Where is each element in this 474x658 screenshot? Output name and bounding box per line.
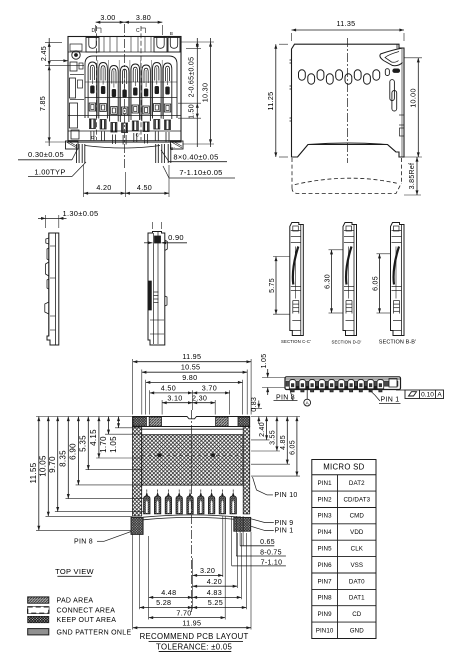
right profile dark latch block bbox=[155, 236, 161, 243]
dimension 6.05 (pcb) bbox=[289, 417, 298, 477]
side view bump 1 bbox=[289, 380, 296, 389]
table row line 5 bbox=[312, 556, 376, 558]
side view bump 2 bbox=[299, 380, 306, 389]
right solder legs bbox=[155, 144, 157, 163]
label TOP VIEW bbox=[55, 567, 94, 576]
dimension 11.95 (pcb top) bbox=[133, 352, 251, 363]
dimension 8-0.75 bbox=[236, 550, 286, 557]
svg-text:SECTION C-C': SECTION C-C' bbox=[281, 339, 311, 344]
svg-text:11.95: 11.95 bbox=[182, 352, 201, 361]
dimension 5.35 bbox=[79, 417, 90, 470]
table row line 9 bbox=[312, 621, 376, 623]
dark oval feature bbox=[393, 69, 400, 72]
keep out right column bbox=[243, 427, 250, 514]
dimension 8.35 bbox=[59, 417, 70, 499]
table row line 7 bbox=[312, 588, 376, 590]
svg-text:3.85Ref: 3.85Ref bbox=[409, 163, 416, 190]
svg-text:0.90: 0.90 bbox=[168, 233, 184, 242]
svg-text:CONNECT AREA: CONNECT AREA bbox=[57, 607, 116, 614]
table row line 8 bbox=[312, 605, 376, 607]
svg-text:8.35: 8.35 bbox=[59, 450, 68, 467]
svg-text:6.30: 6.30 bbox=[324, 274, 331, 289]
dimension 10.30 (right) bbox=[183, 38, 214, 147]
right edge details bbox=[401, 48, 403, 157]
legend connect area bbox=[28, 607, 116, 614]
small oval feature bbox=[385, 69, 389, 76]
svg-text:2.45: 2.45 bbox=[39, 46, 48, 61]
dimension 6.90 bbox=[69, 417, 80, 485]
gnd pad top-right bbox=[238, 417, 250, 426]
label TOLERANCE ±0.05 bbox=[156, 642, 232, 651]
svg-text:4.83: 4.83 bbox=[207, 588, 222, 597]
pin1 marker dots bbox=[158, 454, 162, 458]
svg-text:CD/DAT3: CD/DAT3 bbox=[343, 496, 370, 503]
left corner foot bbox=[66, 141, 79, 149]
contact pin 3 bbox=[110, 66, 119, 145]
view: left side profile bbox=[45, 233, 59, 345]
label PIN 1 (pcb) bbox=[251, 526, 294, 534]
svg-text:DAT1: DAT1 bbox=[349, 595, 365, 602]
section foot lines bbox=[292, 320, 301, 322]
svg-text:1.00TYP: 1.00TYP bbox=[34, 168, 65, 177]
pad area top-left bbox=[149, 417, 161, 426]
pad area top-right bbox=[216, 417, 229, 426]
pcb pad pin 9 bbox=[230, 496, 236, 514]
side view right end window bbox=[389, 379, 397, 388]
svg-text:DAT2: DAT2 bbox=[349, 480, 365, 487]
svg-text:C: C bbox=[136, 28, 140, 34]
svg-text:1.30±0.05: 1.30±0.05 bbox=[62, 209, 98, 218]
dimension 5.28 / 5.25 bbox=[140, 598, 247, 609]
svg-text:PIN5: PIN5 bbox=[318, 546, 333, 553]
svg-text:PAD AREA: PAD AREA bbox=[57, 597, 94, 604]
view: front side view of connector bbox=[285, 377, 401, 392]
svg-text:10.05: 10.05 bbox=[39, 455, 48, 477]
section line D-D bbox=[96, 26, 98, 140]
svg-text:PIN 1: PIN 1 bbox=[274, 528, 293, 535]
svg-text:D: D bbox=[92, 28, 96, 34]
svg-text:5.35: 5.35 bbox=[79, 435, 88, 452]
svg-text:2.30: 2.30 bbox=[192, 394, 207, 403]
pcb pad pin 7 bbox=[208, 496, 214, 514]
datum A symbol bbox=[304, 390, 311, 407]
contact pin 6 bbox=[142, 65, 151, 144]
dimension 0.90 bbox=[144, 222, 187, 244]
pcb right extension lines bbox=[251, 417, 300, 477]
leader arrow at left edge bbox=[50, 60, 68, 62]
pcb pad pin 6 bbox=[198, 496, 204, 514]
svg-text:GND: GND bbox=[350, 627, 364, 634]
svg-text:3.70: 3.70 bbox=[202, 383, 217, 392]
dimension 1.05 (side view) bbox=[261, 354, 285, 395]
table row line 2 bbox=[312, 507, 376, 509]
svg-text:D': D' bbox=[91, 135, 96, 140]
svg-text:5.25: 5.25 bbox=[208, 598, 223, 607]
svg-text:0.83: 0.83 bbox=[251, 397, 258, 412]
mount tab right with slot bbox=[168, 38, 180, 53]
svg-text:RECOMMEND PCB LAYOUT: RECOMMEND PCB LAYOUT bbox=[140, 632, 249, 641]
right corner foot bbox=[171, 141, 184, 149]
dimension 9.80 bbox=[146, 373, 243, 384]
gnd foot bottom-right bbox=[234, 517, 251, 531]
gnd pad top-left bbox=[133, 417, 146, 426]
keep out left column bbox=[133, 427, 142, 517]
svg-text:3.20: 3.20 bbox=[200, 566, 215, 575]
svg-text:PIN3: PIN3 bbox=[318, 513, 333, 520]
dimension 1.05 bbox=[109, 417, 120, 453]
card edge arcs under pads bbox=[143, 515, 240, 517]
svg-text:4.48: 4.48 bbox=[161, 588, 176, 597]
svg-text:0.30±0.05: 0.30±0.05 bbox=[28, 150, 64, 159]
dimension 10.55 bbox=[142, 363, 247, 374]
svg-text:KEEP OUT AREA: KEEP OUT AREA bbox=[57, 617, 117, 624]
svg-text:3.80: 3.80 bbox=[136, 13, 151, 22]
svg-text:VDD: VDD bbox=[350, 529, 364, 536]
dimension 6.30 bbox=[324, 250, 343, 313]
dimension 2.45 / 7.85 (left) bbox=[38, 38, 84, 146]
svg-text:1.70: 1.70 bbox=[99, 436, 108, 453]
dimension 0.65 bbox=[240, 539, 275, 546]
legend gnd pattern bbox=[28, 629, 132, 637]
dimension 3.10 / 2.30 bbox=[162, 394, 215, 405]
side view bump 6 bbox=[338, 380, 345, 389]
svg-text:PIN10: PIN10 bbox=[316, 627, 334, 634]
right profile dark bar bbox=[149, 281, 152, 310]
connect area dashed line bbox=[142, 454, 244, 456]
side view bump 3 bbox=[309, 380, 316, 389]
svg-text:TOLERANCE: ±0.05: TOLERANCE: ±0.05 bbox=[156, 642, 232, 651]
side view bump 7 bbox=[348, 380, 355, 389]
label PIN 9 bbox=[251, 519, 294, 527]
shell outline bbox=[292, 44, 405, 157]
section ladder ribs bbox=[346, 300, 352, 302]
label PIN 8 (side view) bbox=[274, 390, 298, 401]
svg-text:7.70: 7.70 bbox=[176, 608, 191, 617]
section contact spring bbox=[346, 247, 351, 285]
svg-text:11.35: 11.35 bbox=[337, 19, 356, 28]
view: right side profile bbox=[148, 232, 167, 346]
svg-text:SECTION D-D': SECTION D-D' bbox=[332, 339, 362, 344]
svg-text:10.55: 10.55 bbox=[181, 363, 201, 372]
svg-text:11.95: 11.95 bbox=[182, 618, 201, 627]
svg-text:0.10: 0.10 bbox=[421, 392, 434, 399]
svg-text:9.70: 9.70 bbox=[48, 456, 57, 473]
svg-text:4.50: 4.50 bbox=[137, 183, 152, 192]
inner strip line bbox=[142, 428, 244, 430]
side view bottom blobs bbox=[296, 386, 299, 389]
contact pin 1 bbox=[88, 62, 97, 141]
svg-text:8-0.75: 8-0.75 bbox=[260, 550, 282, 557]
svg-text:PIN8: PIN8 bbox=[318, 595, 333, 602]
louver holes row bbox=[299, 70, 306, 80]
dimension 4.20 (pcb) bbox=[193, 577, 238, 588]
card outline dashed left bbox=[291, 158, 293, 188]
legend pad area bbox=[28, 597, 94, 604]
mount tab mid with slot bbox=[154, 38, 167, 53]
svg-text:PIN1: PIN1 bbox=[318, 480, 333, 487]
shell bottom contour bbox=[292, 143, 405, 157]
dimension 11.25 (left) bbox=[266, 44, 288, 157]
dimension 1.70 bbox=[99, 417, 110, 453]
left profile contact bumps bbox=[46, 238, 49, 244]
svg-text:11.25: 11.25 bbox=[266, 92, 275, 111]
svg-text:10.00: 10.00 bbox=[408, 88, 417, 108]
dimension 11.35 (top) bbox=[292, 19, 405, 41]
svg-text:2-0.65±0.05: 2-0.65±0.05 bbox=[189, 57, 196, 98]
contact pin 8 bbox=[163, 63, 172, 142]
dimension 1.30±0.05 bbox=[38, 209, 104, 228]
dimension 7-1.10±0.05 (leader) bbox=[163, 166, 235, 178]
svg-text:2.40: 2.40 bbox=[259, 422, 266, 437]
svg-text:SECTION B-B': SECTION B-B' bbox=[379, 339, 416, 345]
dimension 0.83 bbox=[251, 397, 262, 424]
pcb top extension lines bbox=[133, 359, 251, 415]
dimension 7-1.10 bbox=[232, 559, 286, 566]
pcb bottom extension lines bbox=[133, 516, 251, 630]
side view bump 5 bbox=[328, 380, 335, 389]
card detect latch bbox=[380, 48, 403, 66]
pcb pad pin 8 bbox=[219, 496, 225, 514]
svg-text:PIN 8: PIN 8 bbox=[74, 539, 93, 546]
dimension 4.50 / 3.70 bbox=[150, 383, 230, 394]
right profile ladder ribs bbox=[154, 291, 159, 293]
dimension 3.00 / 3.80 (top) bbox=[96, 13, 163, 35]
dimension 0.30±0.05 (leader) bbox=[18, 148, 78, 160]
left margin small parts bbox=[70, 44, 82, 51]
svg-text:4.50: 4.50 bbox=[161, 383, 176, 392]
svg-text:TOP VIEW: TOP VIEW bbox=[55, 567, 94, 576]
svg-text:PIN9: PIN9 bbox=[318, 611, 333, 618]
body outline bbox=[68, 37, 181, 143]
pcb center line bbox=[191, 410, 193, 612]
section ladder ribs bbox=[394, 300, 400, 302]
pcb pad pin 1 bbox=[144, 496, 150, 514]
table: MICRO SD pin assignment bbox=[312, 460, 376, 639]
flatness feature control frame 0.10 A bbox=[396, 390, 444, 399]
table column divider bbox=[337, 475, 339, 639]
write protect slot bbox=[390, 80, 395, 101]
svg-text:A: A bbox=[305, 400, 309, 406]
card front edge dashed arc bbox=[295, 178, 397, 184]
dimension 3.85Ref (right) bbox=[404, 157, 421, 195]
svg-text:4.20: 4.20 bbox=[96, 183, 111, 192]
svg-text:CMD: CMD bbox=[350, 513, 365, 520]
svg-text:0.65: 0.65 bbox=[260, 539, 275, 546]
svg-text:7-1.10: 7-1.10 bbox=[261, 559, 283, 566]
side view bump 4 bbox=[319, 380, 326, 389]
view: connector assembly top view (upper-left) bbox=[50, 24, 183, 170]
dimension 4.15 bbox=[89, 417, 100, 459]
dimension 11.55 bbox=[29, 417, 40, 531]
svg-text:7-1.10±0.05: 7-1.10±0.05 bbox=[179, 168, 222, 177]
top band line bbox=[68, 51, 181, 53]
left margin detent circle bbox=[72, 51, 80, 59]
pcb pad pin 5 bbox=[187, 496, 193, 514]
label RECOMMEND PCB LAYOUT bbox=[140, 632, 249, 641]
svg-text:1.05: 1.05 bbox=[109, 436, 118, 453]
dimension 3.20 bbox=[193, 566, 223, 577]
view: recommended PCB layout bbox=[131, 410, 251, 612]
top band segment lines bbox=[103, 37, 105, 53]
view: section D-D (middle-right 2) bbox=[343, 223, 357, 336]
left solder legs bbox=[76, 144, 78, 163]
housing walls between contacts bbox=[97, 60, 99, 116]
dimension 6.05 bbox=[372, 254, 391, 313]
dimension 2.40 bbox=[259, 417, 268, 440]
mount tab left with slot bbox=[86, 38, 99, 53]
svg-text:CLK: CLK bbox=[351, 546, 364, 553]
dimension 2-0.65 / 1.50 (right) bbox=[178, 38, 214, 147]
table row line 3 bbox=[312, 523, 376, 525]
svg-text:4.20: 4.20 bbox=[207, 577, 222, 586]
svg-text:1.05: 1.05 bbox=[261, 354, 268, 369]
side view bump 9 bbox=[367, 380, 374, 389]
svg-text:10.30: 10.30 bbox=[200, 83, 209, 103]
svg-text:DAT0: DAT0 bbox=[349, 578, 365, 585]
svg-text:B: B bbox=[170, 31, 173, 36]
svg-text:PIN 1: PIN 1 bbox=[380, 397, 399, 404]
section ladder ribs bbox=[293, 300, 299, 302]
svg-text:6.05: 6.05 bbox=[289, 440, 296, 455]
view: section B-B (middle-right 3) bbox=[391, 223, 405, 336]
pcb top strip outline bbox=[133, 417, 250, 427]
svg-text:PIN 10: PIN 10 bbox=[274, 492, 297, 499]
contact pin 2 bbox=[99, 63, 108, 142]
svg-text:VSS: VSS bbox=[350, 562, 363, 569]
svg-text:A: A bbox=[437, 392, 442, 399]
label PIN 1 (side view) bbox=[369, 390, 401, 404]
svg-text:5.75: 5.75 bbox=[269, 278, 276, 293]
svg-text:GND PATTERN ONLE: GND PATTERN ONLE bbox=[57, 629, 132, 636]
contact pin 5 bbox=[131, 64, 140, 143]
section line C-C bbox=[140, 26, 142, 140]
dimension 10.05 bbox=[39, 417, 50, 517]
dimension 11.95 (pcb bottom) bbox=[133, 618, 251, 629]
housing horizontal ribs bbox=[85, 81, 177, 83]
svg-text:3.10: 3.10 bbox=[167, 394, 182, 403]
svg-text:CD: CD bbox=[352, 611, 362, 618]
section profile outline bbox=[343, 223, 357, 336]
dimension 5.75 bbox=[269, 257, 290, 315]
svg-text:4.15: 4.15 bbox=[89, 429, 98, 446]
svg-text:3.00: 3.00 bbox=[100, 13, 115, 22]
svg-text:4.85: 4.85 bbox=[280, 435, 287, 450]
table row line 6 bbox=[312, 572, 376, 574]
svg-text:9.80: 9.80 bbox=[182, 373, 197, 382]
center line bbox=[347, 38, 349, 163]
contact pin 4 bbox=[120, 66, 129, 145]
svg-text:6.90: 6.90 bbox=[69, 443, 78, 460]
view: shell top view (upper-right) bbox=[290, 38, 405, 194]
dimension 4.85 bbox=[280, 417, 289, 465]
card outline dashed bottom bbox=[292, 183, 402, 194]
dimension 3.55 bbox=[269, 417, 278, 452]
dimension 4.20 / 4.50 (bottom) bbox=[84, 165, 170, 197]
label PIN 8 (pcb) bbox=[74, 532, 131, 546]
section foot lines bbox=[393, 320, 402, 322]
svg-text:PIN6: PIN6 bbox=[318, 562, 333, 569]
svg-text:B': B' bbox=[170, 146, 174, 151]
table row line 4 bbox=[312, 539, 376, 541]
view: section C-C (middle-right 1) bbox=[290, 223, 304, 336]
side view bump 10 bbox=[377, 380, 384, 389]
svg-text:PIN 9: PIN 9 bbox=[274, 520, 293, 527]
bottom skirt curve bbox=[85, 146, 160, 149]
pcb left extension lines bbox=[36, 417, 144, 531]
dimension 4.48 bbox=[149, 588, 242, 599]
dimension 1.00TYP (leader) bbox=[28, 162, 86, 177]
svg-text:5.28: 5.28 bbox=[156, 598, 171, 607]
svg-text:1.50: 1.50 bbox=[189, 104, 196, 119]
shell left edge ticks bbox=[290, 59, 292, 61]
dimension 7.70 bbox=[149, 608, 226, 619]
contact pin 7 bbox=[153, 63, 162, 142]
section profile outline bbox=[391, 223, 405, 336]
right profile side hooks bbox=[165, 240, 168, 251]
table row line 1 bbox=[312, 490, 376, 492]
pcb pad pin 2 bbox=[154, 496, 160, 514]
svg-text:PIN4: PIN4 bbox=[318, 529, 333, 536]
gnd foot bottom-left bbox=[131, 517, 143, 534]
svg-text:6.05: 6.05 bbox=[372, 276, 379, 291]
side view dark mid band bbox=[286, 381, 398, 386]
dimension 8x0.40±0.05 (leader) bbox=[161, 150, 227, 162]
section contact spring bbox=[394, 247, 399, 285]
body bottom double edge bbox=[68, 140, 181, 142]
section profile outline bbox=[290, 223, 304, 336]
card outline dashed right bbox=[401, 158, 403, 183]
contact housing rounded cavity bbox=[85, 56, 177, 118]
svg-text:MICRO SD: MICRO SD bbox=[323, 463, 364, 472]
svg-text:7.85: 7.85 bbox=[38, 96, 47, 111]
svg-text:11.55: 11.55 bbox=[29, 462, 38, 483]
left profile inner marks bbox=[50, 245, 56, 247]
side view feet bbox=[291, 390, 294, 392]
svg-text:3.55: 3.55 bbox=[269, 430, 276, 445]
label PIN 10 bbox=[253, 477, 298, 499]
legend keep out area bbox=[28, 616, 116, 624]
section contact spring bbox=[293, 247, 298, 285]
pcb pad pin 3 bbox=[165, 496, 171, 514]
svg-text:PIN7: PIN7 bbox=[318, 578, 333, 585]
dimension 10.00 (right) bbox=[404, 58, 422, 157]
keep out main block bbox=[142, 435, 244, 485]
svg-text:C': C' bbox=[136, 133, 141, 138]
side view bump 8 bbox=[358, 380, 365, 389]
side view body outline bbox=[285, 377, 401, 390]
svg-text:PIN2: PIN2 bbox=[318, 496, 333, 503]
pcb pad pin 4 bbox=[176, 496, 182, 514]
dimension 9.70 bbox=[48, 417, 59, 512]
section foot lines bbox=[346, 320, 355, 322]
center line bbox=[124, 24, 126, 170]
svg-text:8×0.40±0.05: 8×0.40±0.05 bbox=[173, 153, 218, 162]
